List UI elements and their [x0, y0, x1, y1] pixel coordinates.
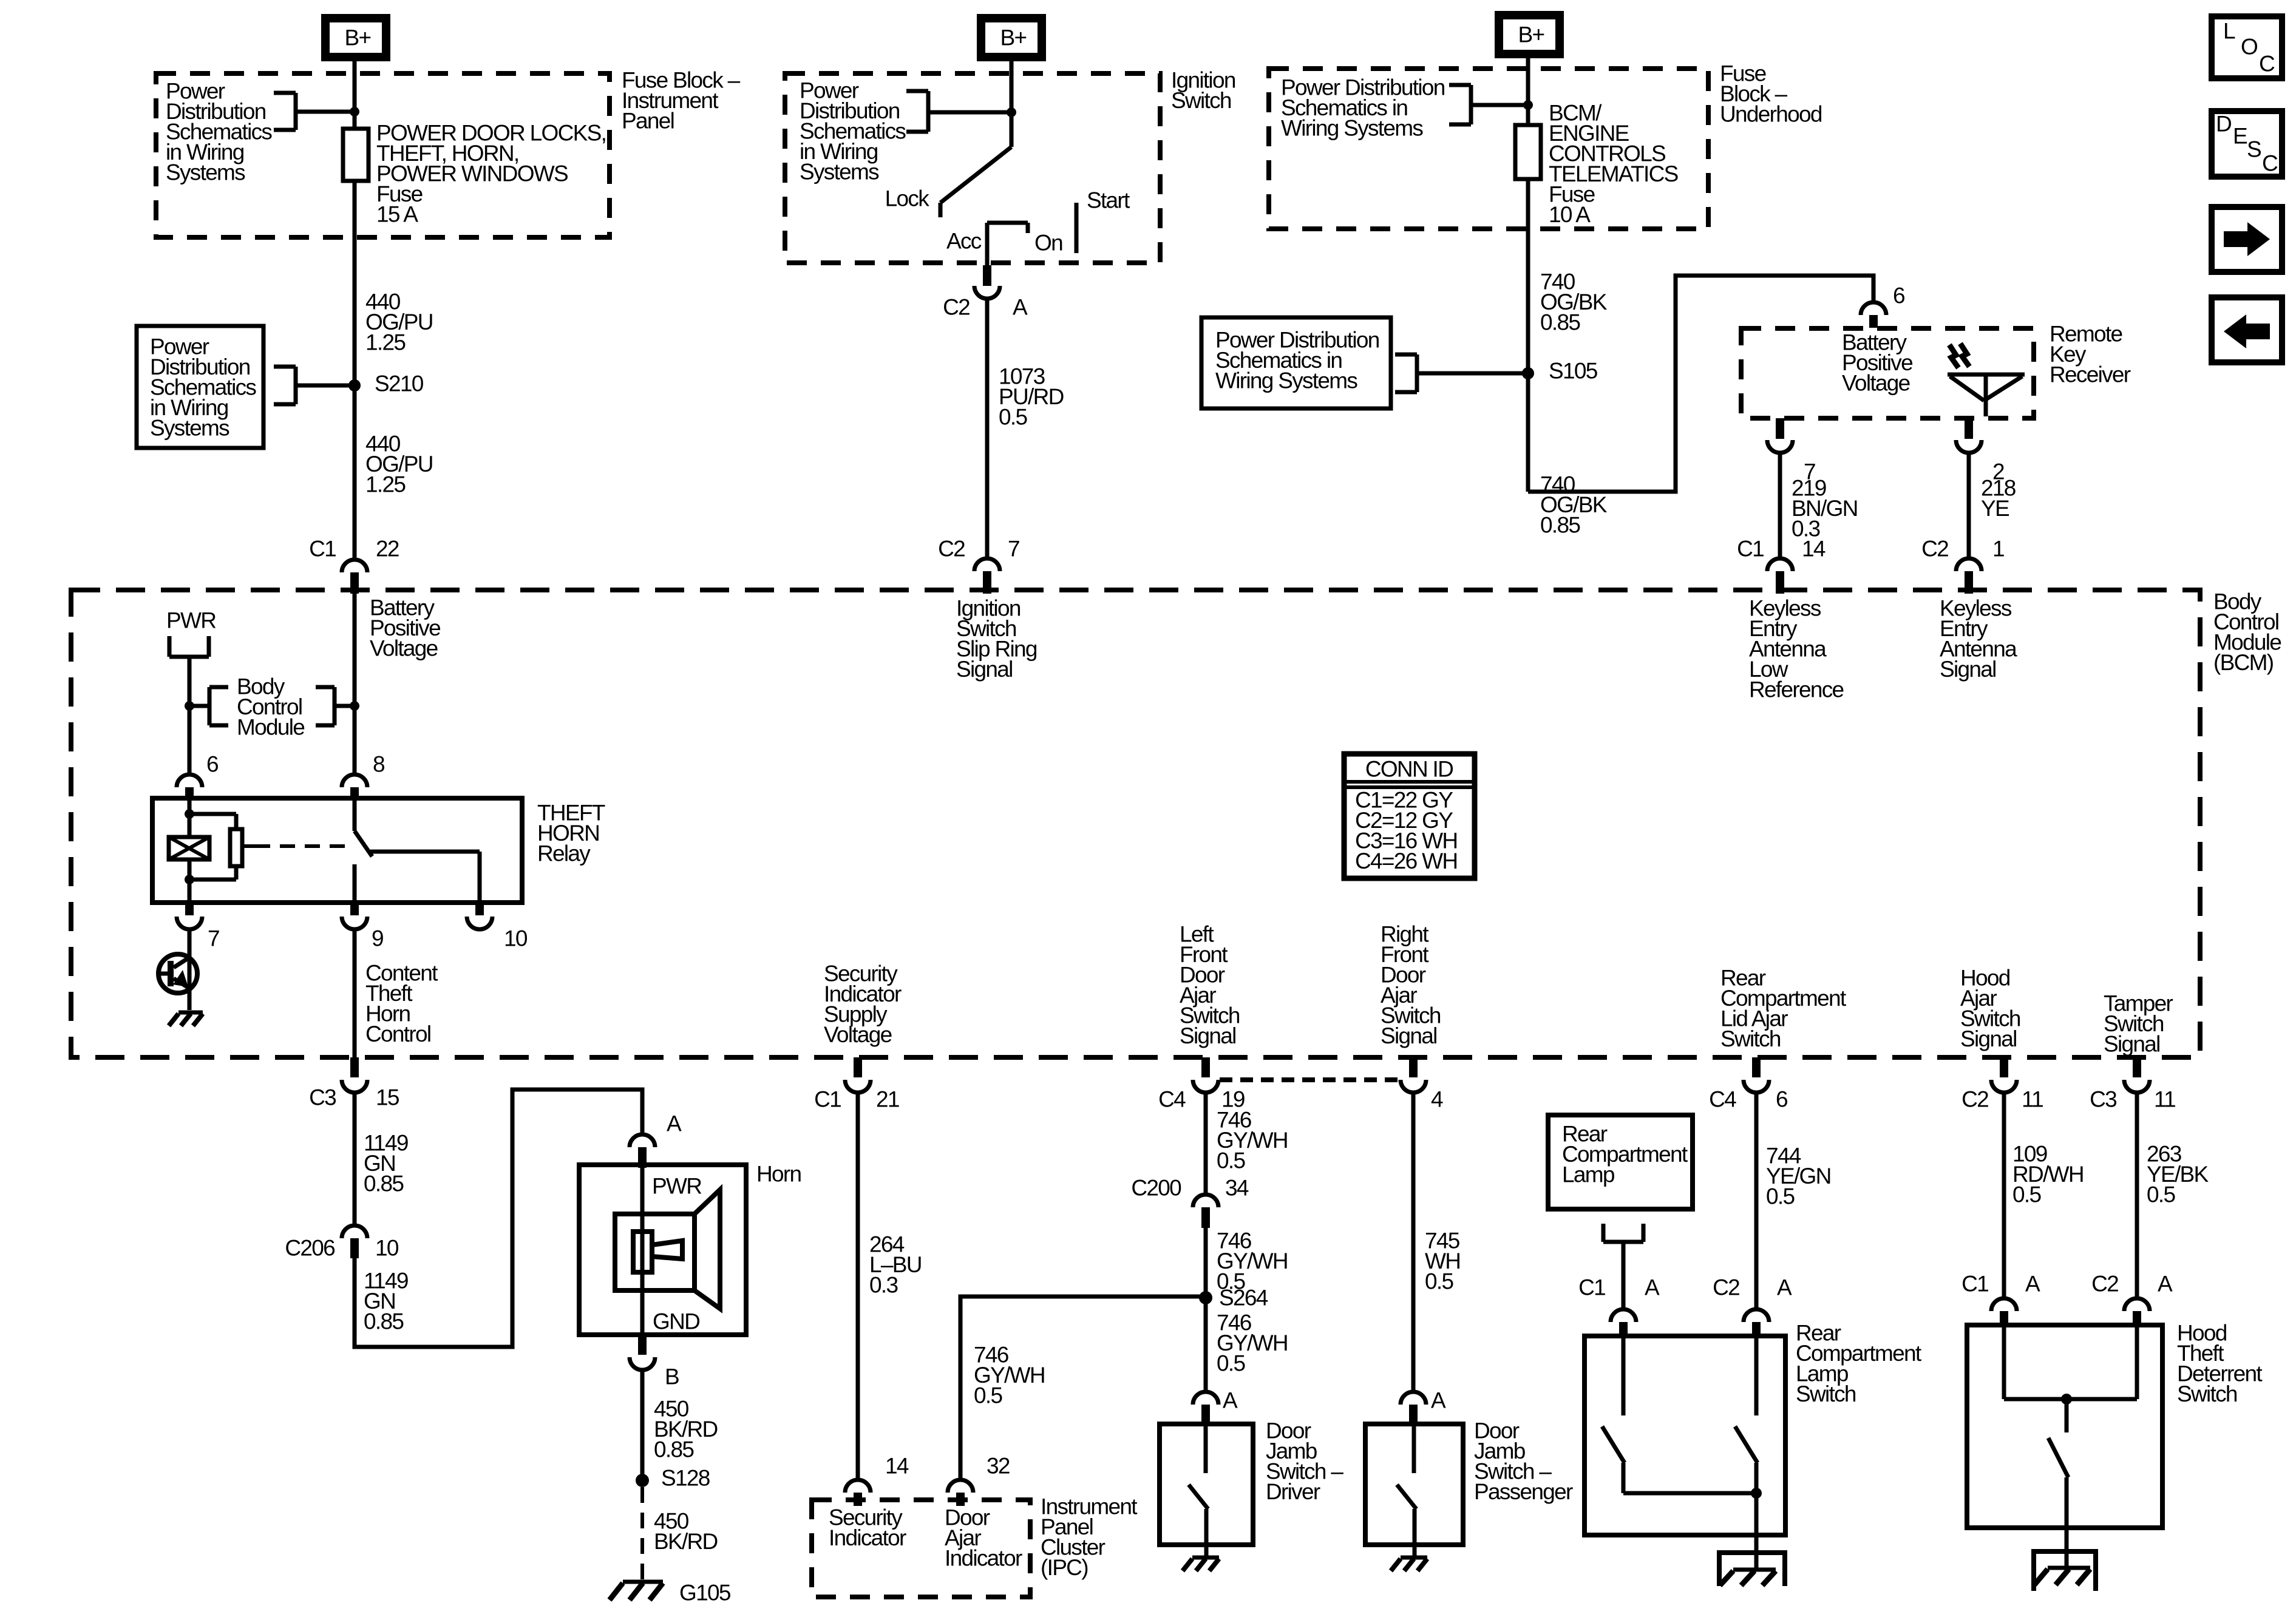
reference: Power Distribution Schematics (ignition) — [800, 78, 906, 185]
svg-text:C2: C2 — [1961, 1087, 1988, 1112]
label Door Jamb Switch Driver — [1266, 1419, 1343, 1505]
wire battery voltage to relay — [353, 594, 357, 775]
svg-text:218YE: 218YE — [1981, 476, 2016, 521]
wire lamp switch to ground — [1754, 1493, 1759, 1570]
wire label 218 YE — [1981, 476, 2016, 521]
wire C206 to horn — [355, 1090, 642, 1347]
svg-text:C1: C1 — [1961, 1272, 1988, 1297]
wire label 440 OG/PU 1.25 (upper) — [365, 290, 433, 355]
wire B+ to fuse block IP — [353, 61, 357, 129]
horn assembly box — [579, 1165, 746, 1335]
svg-text:PWR: PWR — [166, 608, 216, 633]
connector C1 pin 22 (BCM) — [309, 537, 399, 594]
connector pin 10 (relay) — [467, 903, 528, 951]
label Left Front Door Ajar Switch Signal — [1180, 922, 1240, 1049]
svg-text:6: 6 — [1776, 1087, 1787, 1112]
connector pin 8 (relay contact) — [342, 752, 384, 799]
connector C3 pin 15 (BCM) — [309, 1057, 399, 1110]
connector C2 pin A (ignition) — [943, 265, 1028, 320]
connector C3 pin 11 (BCM) — [2090, 1057, 2175, 1112]
svg-text:A: A — [1777, 1275, 1792, 1300]
label Rear Compartment Lamp Switch — [1796, 1321, 1922, 1407]
svg-text:A: A — [1013, 295, 1028, 320]
reference box: Power Distribution Schematics (S105) — [1201, 317, 1391, 408]
label Door Ajar Indicator (IPC) — [945, 1505, 1022, 1571]
svg-text:C: C — [2259, 52, 2275, 76]
svg-text:C: C — [2262, 151, 2278, 176]
wire C1-21 to IPC — [856, 1093, 860, 1480]
ground G105 — [610, 1581, 731, 1605]
svg-text:S: S — [2247, 137, 2261, 162]
svg-text:BatteryPositiveVoltage: BatteryPositiveVoltage — [370, 595, 440, 661]
svg-text:22: 22 — [376, 537, 399, 561]
wire pin4 to passenger door jamb — [1411, 1093, 1416, 1391]
svg-text:S264: S264 — [1219, 1286, 1268, 1310]
wire BCM C3-11 to hood switch — [2135, 1093, 2139, 1298]
wire label 109 RD/WH 0.5 — [2012, 1142, 2084, 1207]
label Hood Ajar Switch Signal — [1960, 966, 2020, 1052]
svg-text:S128: S128 — [661, 1466, 710, 1491]
wire label 440 OG/PU 1.25 (lower) — [365, 432, 433, 497]
svg-text:HoodAjarSwitchSignal: HoodAjarSwitchSignal — [1960, 966, 2020, 1052]
wire relay pin9 to BCM edge — [353, 929, 357, 1057]
junction relay coil top — [185, 809, 194, 819]
label Keyless Entry Antenna Low Reference — [1749, 596, 1844, 702]
svg-text:BCM/ENGINECONTROLSTELEMATICSFu: BCM/ENGINECONTROLSTELEMATICSFuse10 A — [1549, 101, 1678, 228]
svg-text:BodyControlModule(BCM): BodyControlModule(BCM) — [2213, 589, 2281, 676]
wire label 19/746 GY/WH 0.5 — [1217, 1108, 1288, 1173]
svg-text:RearCompartmentLamp: RearCompartmentLamp — [1562, 1122, 1688, 1187]
svg-text:1149GN0.85: 1149GN0.85 — [364, 1131, 408, 1196]
connector C1 pin 21 (BCM) — [814, 1057, 899, 1112]
connector pin 2 (receiver signal) — [1956, 418, 2004, 484]
svg-text:G105: G105 — [679, 1581, 731, 1605]
label Content Theft Horn Control — [365, 961, 438, 1047]
svg-text:IgnitionSwitchSlip RingSignal: IgnitionSwitchSlip RingSignal — [956, 596, 1037, 682]
label PWR (BCM internal supply) — [166, 608, 216, 633]
wire BCM C4-6 to lamp switch — [1754, 1093, 1759, 1309]
connector pin A (driver door jamb) — [1193, 1388, 1238, 1425]
wire label 745 WH 0.5 — [1425, 1229, 1460, 1294]
label Instrument Panel Cluster IPC — [1041, 1494, 1138, 1581]
svg-text:A: A — [667, 1111, 682, 1136]
power feed B+ (underhood fuse block) — [1499, 15, 1560, 54]
svg-text:GND: GND — [653, 1309, 699, 1334]
svg-text:1: 1 — [1992, 537, 2004, 561]
wire label 1149 GN 0.85 (upper) — [364, 1131, 408, 1196]
wire receiver pin7 to BCM C1-14 — [1778, 453, 1782, 558]
svg-text:263YE/BK0.5: 263YE/BK0.5 — [2147, 1142, 2209, 1207]
bracket BCM left — [189, 687, 228, 725]
connector pin A (horn) — [630, 1111, 682, 1168]
svg-text:9: 9 — [372, 926, 383, 951]
svg-text:DoorJambSwitch –Driver: DoorJambSwitch –Driver — [1266, 1419, 1343, 1505]
wire fuse to C1 — [353, 181, 357, 558]
svg-text:B+: B+ — [345, 25, 371, 50]
wire label 740 OG/BK 0.85 (lower) — [1540, 472, 1608, 538]
fuse F2 BCM/ENGINE 10A — [1515, 125, 1541, 179]
svg-text:746GY/WH0.5: 746GY/WH0.5 — [1217, 1310, 1288, 1376]
svg-text:RearCompartmentLid AjarSwitch: RearCompartmentLid AjarSwitch — [1720, 966, 1847, 1052]
label Body Control Module (internal) — [237, 674, 304, 740]
rear compartment lamp box — [1548, 1115, 1693, 1209]
svg-text:C2: C2 — [943, 295, 970, 320]
label Fuse Block - Underhood — [1720, 61, 1822, 127]
wire label 219 BN/GN 0.3 — [1792, 476, 1858, 541]
svg-text:Horn: Horn — [756, 1162, 801, 1187]
reference: Power Distribution Schematics (underhood) — [1281, 75, 1445, 141]
svg-text:11: 11 — [2022, 1087, 2043, 1112]
wire S264 to door ajar indicator — [960, 1297, 1206, 1480]
svg-text:RearCompartmentLampSwitch: RearCompartmentLampSwitch — [1796, 1321, 1922, 1407]
svg-text:A: A — [1431, 1388, 1446, 1413]
svg-text:LeftFrontDoorAjarSwitchSignal: LeftFrontDoorAjarSwitchSignal — [1180, 922, 1240, 1049]
reference box: Power Distribution Schematics (solid) — [137, 326, 263, 448]
svg-text:7: 7 — [1008, 537, 1019, 561]
hood switch contacts — [2004, 1325, 2137, 1399]
svg-text:O: O — [2241, 35, 2258, 59]
wire horn to S128 — [640, 1370, 645, 1480]
junction BCM right — [350, 701, 359, 711]
connector pin 6 (remote key receiver) — [1861, 283, 1904, 328]
svg-text:ContentTheftHornControl: ContentTheftHornControl — [365, 961, 438, 1047]
svg-text:21: 21 — [876, 1087, 899, 1112]
connector C1 pin A (lamp switch) — [1578, 1275, 1660, 1338]
svg-text:A: A — [2158, 1272, 2173, 1297]
svg-text:744YE/GN0.5: 744YE/GN0.5 — [1766, 1144, 1831, 1209]
svg-text:C3: C3 — [2090, 1087, 2116, 1112]
svg-text:Fuse Block –InstrumentPanel: Fuse Block –InstrumentPanel — [622, 68, 741, 134]
svg-text:L: L — [2223, 19, 2235, 44]
label Acc — [946, 229, 982, 254]
bracket to S105 — [1395, 354, 1528, 392]
svg-text:11: 11 — [2154, 1087, 2175, 1112]
label Body Control Module (BCM) — [2213, 589, 2281, 676]
svg-text:RightFrontDoorAjarSwitchSignal: RightFrontDoorAjarSwitchSignal — [1381, 922, 1441, 1049]
svg-text:IgnitionSwitch: IgnitionSwitch — [1171, 68, 1235, 114]
connector pin 32 (IPC) — [948, 1454, 1010, 1507]
svg-text:14: 14 — [1802, 537, 1826, 561]
svg-text:746GY/WH0.5: 746GY/WH0.5 — [974, 1343, 1045, 1408]
svg-text:CONN ID: CONN ID — [1365, 757, 1453, 782]
remote key receiver (dashed box) — [1741, 328, 2034, 418]
label Right Front Door Ajar Switch Signal — [1381, 922, 1441, 1049]
splice S264 — [1199, 1286, 1268, 1310]
splice S210 — [348, 371, 424, 396]
label Remote Key Receiver — [2050, 322, 2131, 387]
instrument panel cluster (dashed box) — [812, 1500, 1030, 1597]
label Battery Positive Voltage (receiver) — [1842, 330, 1912, 396]
dotted link pins 19-4 — [1220, 1077, 1401, 1082]
svg-text:32: 32 — [987, 1454, 1010, 1479]
connector C2 pin 11 (BCM) — [1961, 1057, 2043, 1112]
svg-text:TamperSwitchSignal: TamperSwitchSignal — [2104, 991, 2173, 1057]
body control module BCM (dashed box) — [71, 590, 2200, 1057]
svg-text:C2: C2 — [1921, 537, 1948, 561]
svg-text:S105: S105 — [1549, 359, 1598, 384]
label Lock — [885, 186, 930, 211]
Start contact — [1075, 203, 1079, 253]
svg-text:BatteryPositiveVoltage: BatteryPositiveVoltage — [1842, 330, 1912, 396]
connector pin B (horn) — [630, 1335, 679, 1389]
svg-text:D: D — [2216, 112, 2231, 137]
wire lamp to C1-A — [1622, 1242, 1626, 1309]
svg-text:10: 10 — [375, 1236, 399, 1261]
ignition switch (dashed box) — [785, 73, 1160, 263]
wire C3-15 to C206 — [353, 1093, 357, 1225]
lamp switch left contact — [1602, 1336, 1625, 1493]
connector C4 pin 19 (BCM) — [1158, 1057, 1245, 1112]
svg-text:PowerDistributionSchematicsin: PowerDistributionSchematicsin WiringSyst… — [150, 334, 256, 441]
svg-text:C2: C2 — [2091, 1272, 2118, 1297]
svg-text:6: 6 — [1893, 283, 1904, 308]
svg-text:InstrumentPanelCluster(IPC): InstrumentPanelCluster(IPC) — [1041, 1494, 1138, 1581]
connector C1 pin A (hood switch) — [1961, 1272, 2040, 1327]
wire coil to pin7 — [188, 859, 192, 903]
DESC box — [2212, 111, 2282, 177]
junction on feed wire — [350, 107, 359, 117]
label Horn — [756, 1162, 801, 1187]
svg-text:8: 8 — [373, 752, 384, 777]
svg-text:C2: C2 — [1713, 1275, 1739, 1300]
back arrow box — [2212, 297, 2282, 362]
lamp switch common bar — [1623, 1491, 1756, 1496]
rear compartment lamp switch box — [1584, 1336, 1785, 1535]
wire S105 to remote key receiver — [1528, 276, 1873, 492]
wire fuse to S105 corner — [1526, 179, 1530, 492]
bracket underhood feed — [1449, 85, 1528, 124]
svg-text:6: 6 — [206, 752, 218, 777]
svg-text:PWR: PWR — [652, 1174, 701, 1199]
wire label 1149 GN 0.85 (lower) — [364, 1269, 408, 1334]
svg-text:C4: C4 — [1158, 1087, 1186, 1112]
svg-text:14: 14 — [885, 1454, 909, 1479]
svg-text:PowerDistributionSchematicsin: PowerDistributionSchematicsin WiringSyst… — [800, 78, 906, 185]
wire label 450 BK/RD — [654, 1509, 718, 1554]
wire label 746 GY/WH 0.5 (mid) — [1217, 1229, 1288, 1294]
svg-text:SecurityIndicatorSupplyVoltage: SecurityIndicatorSupplyVoltage — [824, 961, 902, 1048]
svg-text:1149GN0.85: 1149GN0.85 — [364, 1269, 408, 1334]
svg-text:1073PU/RD0.5: 1073PU/RD0.5 — [999, 364, 1064, 430]
fuse F1 POWER DOOR LOCKS 15A — [343, 129, 369, 181]
svg-text:Lock: Lock — [885, 186, 930, 211]
wire label 740 OG/BK 0.85 (upper) — [1540, 269, 1608, 335]
bracket to S210 — [274, 367, 355, 404]
connector C4 pin 6 (BCM) — [1709, 1057, 1787, 1112]
svg-text:440OG/PU1.25: 440OG/PU1.25 — [365, 432, 433, 497]
wire S264 to door jamb driver — [1204, 1298, 1208, 1391]
svg-text:Power DistributionSchematics i: Power DistributionSchematics inWiring Sy… — [1281, 75, 1445, 141]
bracket ignition feed — [906, 91, 1011, 132]
fuse block - instrument panel (dashed box) — [156, 73, 610, 237]
wire C4-19 to C200 — [1204, 1093, 1208, 1195]
splice S128 — [636, 1466, 710, 1491]
relay coil K1 — [169, 837, 209, 859]
horn symbol — [615, 1190, 720, 1309]
ground (lamp switch) — [1720, 1570, 1776, 1585]
wire through horn — [640, 1168, 645, 1335]
svg-text:34: 34 — [1225, 1176, 1249, 1201]
connector pin 7 (relay) — [177, 903, 219, 951]
label Security Indicator (IPC) — [829, 1505, 906, 1551]
svg-text:SecurityIndicator: SecurityIndicator — [829, 1505, 906, 1551]
svg-text:A: A — [1645, 1275, 1660, 1300]
ground shield (lamp switch) — [1719, 1553, 1785, 1586]
LOC box — [2212, 16, 2282, 78]
svg-text:C1: C1 — [814, 1087, 841, 1112]
Acc-On contact — [987, 223, 1028, 265]
wire PWR to relay coil — [188, 657, 192, 775]
junction hood switch — [2061, 1394, 2072, 1405]
connector C2 pin A (hood switch) — [2091, 1272, 2173, 1327]
ground (driver door switch) — [1183, 1558, 1219, 1571]
rear compartment lamp symbol — [1603, 1224, 1643, 1242]
connector C206 pin 10 — [285, 1225, 399, 1261]
theft horn relay box — [152, 798, 522, 903]
wire B+ to ignition switch — [1010, 61, 1014, 147]
svg-text:A: A — [1223, 1388, 1238, 1413]
wire label 1073 PU/RD 0.5 — [999, 364, 1064, 430]
svg-text:C1: C1 — [1737, 537, 1764, 561]
connector C2 pin 7 (BCM) — [938, 537, 1019, 594]
svg-text:15: 15 — [376, 1085, 399, 1110]
connector C1 pin 14 (BCM) — [1737, 537, 1826, 594]
svg-text:DoorAjarIndicator: DoorAjarIndicator — [945, 1505, 1022, 1571]
power feed B+ (instrument panel fuse block) — [325, 18, 386, 57]
connector pin 9 (relay) — [342, 903, 383, 951]
ground (hood switch) — [2034, 1568, 2090, 1585]
label Door Jamb Switch Passenger — [1474, 1419, 1573, 1505]
antenna symbol — [1948, 375, 2025, 416]
label Rear Compartment Lid Ajar Switch — [1720, 966, 1847, 1052]
svg-text:450BK/RD: 450BK/RD — [654, 1509, 718, 1554]
svg-text:4: 4 — [1431, 1087, 1443, 1112]
power feed B+ (ignition switch) — [981, 18, 1042, 57]
svg-text:C200: C200 — [1131, 1176, 1181, 1201]
svg-text:C1: C1 — [309, 537, 336, 561]
connector C2 pin A (lamp switch) — [1713, 1275, 1792, 1338]
label GND (horn) — [653, 1309, 699, 1334]
horn driver transistor Q1 — [157, 954, 197, 993]
label Fuse Block - Instrument Panel — [622, 68, 741, 134]
connector pin 7 (receiver low ref) — [1767, 418, 1815, 484]
ground (transistor emitter) — [169, 1012, 203, 1026]
label fuse 10A — [1549, 101, 1678, 228]
wire driver switch to ground — [1204, 1545, 1209, 1558]
svg-text:10: 10 — [504, 926, 528, 951]
wire relay pin7 to driver transistor — [188, 929, 192, 1010]
bracket BCM right — [316, 687, 355, 725]
hood switch arm — [2048, 1399, 2068, 1568]
door jamb switch driver box — [1160, 1424, 1253, 1545]
relay switch arm — [355, 798, 480, 903]
svg-text:746GY/WH0.5: 746GY/WH0.5 — [1217, 1229, 1288, 1294]
svg-text:745WH0.5: 745WH0.5 — [1425, 1229, 1460, 1294]
wire ignition to BCM C2-7 — [985, 299, 990, 558]
svg-text:C3: C3 — [309, 1085, 336, 1110]
fuse block - underhood (dashed box) — [1269, 69, 1708, 229]
svg-text:RemoteKeyReceiver: RemoteKeyReceiver — [2050, 322, 2131, 387]
label Tamper Switch Signal — [2104, 991, 2173, 1057]
junction underhood feed — [1523, 100, 1533, 110]
wire passenger switch to ground — [1413, 1545, 1417, 1558]
label Start — [1087, 188, 1130, 213]
connector C200 pin 34 — [1131, 1176, 1249, 1229]
ground (passenger door switch) — [1391, 1558, 1427, 1571]
wire BCM C2-11 to hood switch — [2002, 1093, 2006, 1298]
CONN ID table — [1344, 754, 1475, 878]
svg-text:THEFTHORNRelay: THEFTHORNRelay — [537, 801, 605, 866]
wire label 263 YE/BK 0.5 — [2147, 1142, 2209, 1207]
svg-text:PowerDistributionSchematicsin: PowerDistributionSchematicsin WiringSyst… — [166, 79, 272, 185]
svg-text:DoorJambSwitch –Passenger: DoorJambSwitch –Passenger — [1474, 1419, 1573, 1505]
label fuse 15A — [376, 121, 606, 227]
door jamb switch passenger box — [1365, 1424, 1463, 1545]
label Hood Theft Deterrent Switch — [2177, 1321, 2263, 1407]
svg-text:C1: C1 — [1578, 1275, 1605, 1300]
svg-text:B+: B+ — [1518, 22, 1544, 47]
svg-text:KeylessEntryAntennaLowReferenc: KeylessEntryAntennaLowReference — [1749, 596, 1844, 702]
bracket to feed wire — [274, 93, 355, 130]
svg-text:C1=22 GYC2=12 GYC3=16 WHC4=26: C1=22 GYC2=12 GYC3=16 WHC4=26 WH — [1355, 788, 1457, 874]
label PWR (horn) — [652, 1174, 701, 1199]
junction lamp switch — [1751, 1488, 1762, 1499]
junction BCM left — [185, 701, 194, 711]
connector pin 4 (BCM) — [1401, 1057, 1443, 1112]
RF waves symbol — [1949, 344, 1969, 368]
svg-text:Acc: Acc — [946, 229, 982, 254]
lamp switch right contact — [1735, 1336, 1758, 1493]
PWR symbol — [169, 636, 209, 657]
svg-text:219BN/GN0.3: 219BN/GN0.3 — [1792, 476, 1858, 541]
wire receiver pin2 to BCM C2-1 — [1967, 453, 1971, 558]
reference: Power Distribution Schematics in Wiring Systems (IP) — [166, 79, 272, 185]
wire C200 to S264 — [1204, 1228, 1208, 1298]
svg-text:KeylessEntryAntennaSignal: KeylessEntryAntennaSignal — [1940, 596, 2017, 682]
svg-text:746GY/WH0.5: 746GY/WH0.5 — [1217, 1108, 1288, 1173]
svg-text:109RD/WH0.5: 109RD/WH0.5 — [2012, 1142, 2084, 1207]
junction ignition feed — [1007, 107, 1016, 117]
svg-text:C206: C206 — [285, 1236, 335, 1261]
svg-text:POWER DOOR LOCKS,THEFT, HORN,P: POWER DOOR LOCKS,THEFT, HORN,POWER WINDO… — [376, 121, 606, 227]
label Battery Positive Voltage (BCM) — [370, 595, 440, 661]
label Ignition Switch — [1171, 68, 1235, 114]
svg-text:BodyControlModule: BodyControlModule — [237, 674, 304, 740]
hood theft deterrent switch box — [1967, 1325, 2162, 1528]
svg-text:740OG/BK0.85: 740OG/BK0.85 — [1540, 472, 1608, 538]
wire label 746 GY/WH 0.5 (indicator) — [974, 1343, 1045, 1408]
wire B+ to underhood fuse — [1526, 58, 1530, 125]
connector C2 pin 1 (BCM) — [1921, 537, 2004, 594]
svg-text:264L–BU0.3: 264L–BU0.3 — [869, 1232, 922, 1298]
svg-text:B: B — [665, 1364, 679, 1389]
svg-text:HoodTheftDeterrentSwitch: HoodTheftDeterrentSwitch — [2177, 1321, 2263, 1407]
svg-text:740OG/BK0.85: 740OG/BK0.85 — [1540, 269, 1608, 335]
splice S105 — [1522, 359, 1598, 384]
wire label 744 YE/GN 0.5 — [1766, 1144, 1831, 1209]
passenger door switch — [1397, 1424, 1416, 1545]
svg-text:FuseBlock –Underhood: FuseBlock –Underhood — [1720, 61, 1822, 127]
relay actuation dashed link — [242, 844, 350, 848]
svg-text:E: E — [2233, 124, 2247, 149]
ignition switch arm (Lock position) — [940, 147, 1011, 217]
wire S128 to G105 (dashed) — [640, 1487, 644, 1579]
svg-text:B+: B+ — [1000, 25, 1027, 50]
connector pin 6 (relay coil) — [177, 752, 218, 799]
svg-text:Start: Start — [1087, 188, 1130, 213]
ground shield (hood switch) — [2034, 1551, 2096, 1591]
relay suppression resistor — [189, 814, 242, 880]
